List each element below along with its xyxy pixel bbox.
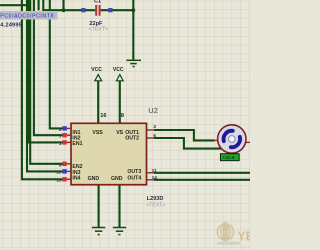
wire from capacitor C1 right plate to ground net [101,9,134,11]
wire U2 pin 6 (OUT2) to motor lower-left [154,138,224,149]
svg-text:2: 2 [59,127,62,133]
pin stub U2 pin 14 [147,179,155,181]
svg-text:YE: YE [237,229,250,243]
IC U2 pin name labels [72,130,141,182]
pin stub U2 pin 7 [67,134,71,136]
svg-text:U2: U2 [148,106,158,115]
pin stub U2 pin 1 [67,141,71,143]
wire VCC2 arrow to U2 pin 8 (VS) [119,81,121,124]
wire to U2 pin 7 (IN2) [34,0,63,135]
svg-text:VCC: VCC [91,67,102,73]
wire from top into capacitor C1 left plate [43,0,95,10]
pin stub U2 pin 9 [67,163,71,165]
svg-text:<TEXT>: <TEXT> [89,26,108,32]
svg-text:PC0/ADC0/PCINT8: PC0/ADC0/PCINT8 [0,14,54,20]
svg-text:OUT4: OUT4 [127,176,141,182]
logic state square pin 10 (low) [62,169,66,173]
capacitor C1 plates [96,5,99,16]
motor M1 speed readout +32.6 [220,154,239,162]
pin stub U2 pin 3 [147,129,155,131]
svg-text:16: 16 [100,113,106,119]
wire vertical dropping onto capacitor net at junction A [62,0,64,10]
svg-text:C1: C1 [94,0,101,4]
wire VCC1 arrow to U2 pin 16 (VSS) [97,81,99,124]
wire U2 left GND pins to ground G2 [98,185,100,228]
motor M1 (DC motor) [218,125,246,153]
svg-text:10: 10 [56,170,62,176]
wire to U2 pin 1 (EN1) [29,0,63,142]
svg-text:VS: VS [116,130,123,136]
svg-text:IN4: IN4 [72,176,80,182]
pin stub U2 pin 2 [67,127,71,129]
pin stub U2 pin 10 [67,170,71,172]
svg-text:OUT3: OUT3 [127,169,141,175]
svg-text:EN1: EN1 [72,141,82,147]
pin stub motor right terminal [246,141,250,143]
IC U2 body (L293D driver) [71,123,147,184]
svg-text:8: 8 [121,113,124,119]
logic state square pin 7 (high) [62,133,66,137]
ground G2 [92,228,105,235]
capacitor C1 selection handle left [81,8,85,12]
svg-text:GND: GND [111,176,123,182]
pin stub U2 pin 15 [67,178,71,180]
pin stub U2 pin 6 [147,137,155,139]
wire to U2 pin 10 (IN3) [27,0,63,171]
power symbol VCC1 [91,67,102,81]
svg-text:OUT2: OUT2 [125,136,139,142]
svg-text:VSS: VSS [92,130,103,136]
logic state square pin 1 (high) [62,140,66,144]
svg-text:GND: GND [88,176,100,182]
wire U2 right GND pins to ground G3 [118,185,120,228]
wire U2 pin 14 (OUT4) to right edge [154,179,250,181]
logic state square pin 2 (low) [62,126,66,130]
svg-text:1: 1 [59,141,62,147]
node label PC0/ADC0/PCINT8 (highlighted) [0,11,58,20]
wire to U2 pin 2 (IN1) [50,0,63,128]
svg-text:<TEXT>: <TEXT> [146,203,165,209]
wire short vertical onto capacitor net [38,0,40,10]
svg-text:15: 15 [56,178,62,184]
wire to U2 pin 15 (IN4) [22,0,63,179]
svg-text:VCC: VCC [113,67,124,73]
wire net PC0 horizontal segment at top left [0,4,27,6]
logic state square pin 9 (high) [62,162,66,166]
svg-text:9: 9 [59,162,62,168]
pin stub U2 pin 11 [147,172,155,174]
power symbol VCC2 [113,67,124,81]
watermark logo [217,222,254,245]
ground G3 [113,228,126,235]
capacitor C1 selection handle right [108,8,112,12]
wire U2 pin 3 (OUT1) to motor left terminal [154,130,215,140]
pin stub motor left terminal [214,139,219,141]
svg-text:4.24995: 4.24995 [0,22,22,28]
wire to U2 pin 9 (EN2) [30,0,62,164]
logic state square pin 15 (high) [62,177,66,181]
junction A on capacitor net [62,8,66,12]
svg-text:L293D: L293D [147,196,164,202]
wire U2 pin 11 (OUT3) to right edge [154,172,250,174]
junction B at ground net drop [131,8,135,12]
svg-text:7: 7 [59,134,62,140]
svg-text:+32.6: +32.6 [222,155,234,161]
wire vertical from top edge to ground G1 [132,0,134,60]
ground G1 [126,60,141,66]
